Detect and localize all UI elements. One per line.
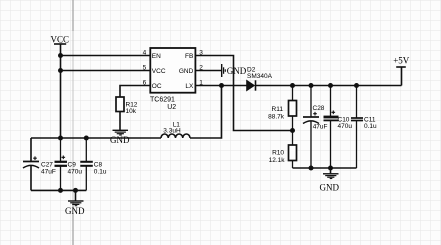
junction dot C9 top [58,136,63,141]
svg-text:470u: 470u [68,169,83,176]
U2 pin numbers [143,50,204,87]
capacitor C8 [80,138,107,190]
svg-text:C9: C9 [68,162,77,169]
svg-text:TC6291: TC6291 [150,97,175,104]
junction dot C9 bottom [58,188,63,193]
resistor R10 [269,131,297,169]
capacitor C11 [351,86,377,169]
junction on VCC stem (EN tap) [58,53,63,58]
junction dot C28 bottom [309,166,314,171]
svg-text:C27: C27 [41,162,53,169]
wire right bottom rail [293,167,357,169]
svg-text:EN: EN [152,53,161,60]
IC U2 body [150,48,195,93]
svg-text:U2: U2 [167,104,176,111]
ground GND (pin2, sideways) [222,64,247,77]
svg-text:GND: GND [65,206,85,216]
svg-text:VCC: VCC [152,68,166,75]
svg-text:47uF: 47uF [313,123,328,130]
junction dot FB divider [290,128,295,133]
wire left bottom rail [31,189,86,191]
svg-text:5: 5 [143,65,147,72]
svg-text:LX: LX [185,83,194,90]
capacitor C10 [324,86,353,169]
svg-text:SM340A: SM340A [247,73,273,80]
wire EN [61,55,151,57]
svg-text:GND: GND [227,66,247,76]
wire LX pin [195,85,246,87]
svg-text:0.1u: 0.1u [94,169,107,176]
wire VCC pin [61,70,151,72]
capacitor C28 [303,86,328,169]
capacitor C9 [55,138,83,190]
resistor R11 [268,86,296,131]
power port +5V [393,56,410,86]
svg-text:OC: OC [152,83,162,90]
ground GND (input caps) [65,190,85,215]
power port VCC [51,35,70,45]
capacitor C27 [23,138,56,190]
svg-text:GND: GND [179,68,194,75]
svg-text:FB: FB [185,53,193,60]
junction dot C10/GND bottom [328,166,333,171]
wire VCC stem [60,44,62,138]
svg-text:47uF: 47uF [41,169,56,176]
wire R12 to ground [119,112,121,131]
wire OC [120,86,150,98]
svg-text:C28: C28 [313,105,325,112]
svg-text:VCC: VCC [51,35,70,45]
svg-text:12.1k: 12.1k [269,157,286,164]
junction dot GND stem [73,188,78,193]
svg-text:+5V: +5V [393,56,410,66]
svg-text:4: 4 [143,50,147,57]
junction dot C10 top [328,83,333,88]
inductor L1 [161,121,190,138]
junction dot C11 top [354,83,359,88]
svg-text:C8: C8 [94,162,103,169]
svg-text:6: 6 [143,80,147,87]
svg-text:470u: 470u [338,123,353,130]
junction dot R11 top [290,83,295,88]
junction dot LX [219,83,224,88]
wire pin2 stub [195,70,221,72]
svg-text:0.1u: 0.1u [364,123,377,130]
wire main rail to L1 [31,137,161,139]
svg-text:R10: R10 [272,150,284,157]
junction dot C8 top [84,136,89,141]
ground GND (output) [320,168,340,192]
svg-text:88.7k: 88.7k [268,114,285,121]
junction dot C28 top [309,83,314,88]
wire FB [195,56,292,131]
svg-text:10k: 10k [126,108,137,115]
svg-text:R11: R11 [272,106,284,113]
resistor R12 [116,97,124,112]
wire L1 to LX [190,86,222,139]
junction on VCC stem (VCC tap) [58,68,63,73]
svg-text:GND: GND [320,182,340,192]
U2 pin names [152,53,194,90]
diode D2 [247,67,273,91]
ground GND (R12) [110,130,130,145]
svg-text:3.3uH: 3.3uH [163,128,181,135]
svg-text:GND: GND [110,135,130,145]
wire output rail [256,85,402,87]
